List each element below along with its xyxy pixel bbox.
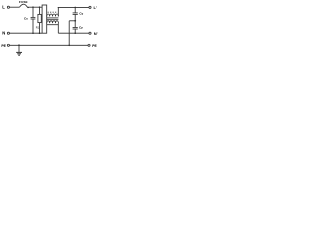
svg-text:R1: R1 — [36, 26, 40, 30]
svg-text:Cx: Cx — [24, 17, 28, 21]
svg-text:N': N' — [94, 31, 98, 36]
svg-text:PE: PE — [1, 44, 6, 48]
svg-text:Cy: Cy — [79, 11, 83, 15]
svg-text:PE: PE — [92, 44, 97, 48]
svg-text:FUSE: FUSE — [19, 0, 28, 4]
svg-text:L: L — [2, 4, 5, 9]
svg-text:L': L' — [94, 5, 97, 10]
svg-text:Cy: Cy — [79, 25, 83, 29]
svg-text:N: N — [2, 31, 5, 36]
